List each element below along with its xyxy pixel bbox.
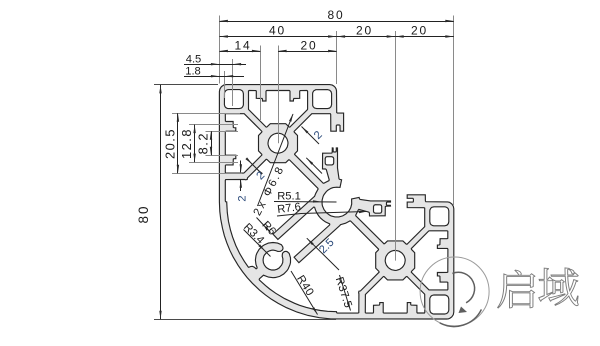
dimension 40 top [219, 24, 336, 85]
svg-text:20: 20 [356, 24, 373, 38]
svg-text:14: 14 [235, 39, 252, 53]
dimension 20 top mid [337, 24, 396, 261]
svg-text:8.2: 8.2 [196, 132, 211, 154]
label 2.5 web thickness [306, 158, 339, 270]
dimension 20 slot center [278, 39, 337, 144]
dimension 1.8 wall [184, 65, 244, 98]
leader 2x dia 6.8 core holes [252, 113, 294, 217]
dimension 8.2 left [196, 131, 239, 155]
svg-text:12.8: 12.8 [179, 128, 194, 159]
svg-text:4.5: 4.5 [186, 53, 202, 65]
watermark text Yu [539, 268, 578, 306]
dimension 14 top [219, 39, 260, 121]
label 2 wall (SW web) [245, 157, 267, 182]
svg-text:80: 80 [328, 8, 345, 22]
leader R7.6 fillet [277, 201, 368, 216]
svg-text:80: 80 [136, 204, 151, 223]
dimension 20.5 left [163, 113, 243, 173]
watermark logo circle [420, 257, 489, 326]
label 2 wall (NE web) [302, 127, 325, 145]
dimension 80 left [136, 85, 336, 320]
dimension 4.5 lip depth [184, 53, 246, 106]
svg-text:40: 40 [269, 24, 286, 38]
label 2 wall (chamber bottom) [237, 161, 249, 202]
svg-text:20: 20 [301, 39, 318, 53]
leader R5.1 corner groove [274, 191, 337, 203]
leader R40 outer arc [291, 271, 318, 315]
watermark logo arrow tip [459, 307, 468, 314]
dimension 80 top [219, 8, 453, 205]
dimension 20 top right [395, 24, 454, 38]
svg-text:2: 2 [237, 195, 249, 201]
profile cross-section body (8080R corner extrusion) [219, 85, 453, 319]
dimension 12.8 left [179, 125, 238, 163]
leader R37.5 inner arc [333, 275, 354, 311]
watermark text Qi [498, 270, 535, 308]
watermark logo Q swoosh [440, 272, 482, 326]
leader R6 boss outer [257, 218, 278, 238]
svg-text:1.8: 1.8 [185, 65, 201, 77]
leader R3.4 boss bore [241, 221, 270, 256]
svg-text:20: 20 [411, 24, 428, 38]
svg-text:20.5: 20.5 [163, 128, 178, 159]
